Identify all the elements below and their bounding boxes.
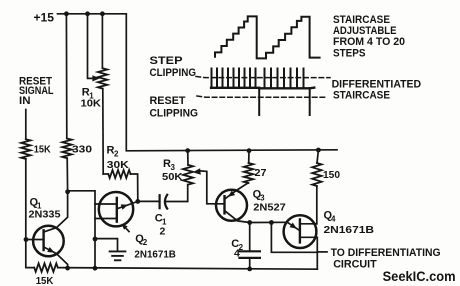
svg-text:50K: 50K [162,171,183,183]
R3 wiper with arrow, to Q3 base [200,171,224,204]
resistor 15K (bottom, horizontal) [34,263,58,271]
wire: reset signal in lead [25,110,27,140]
Q3 emitter lead (to 27 ohm) with arrow [225,183,248,199]
wire: node to C1 [138,200,159,202]
junction dot 6 [316,148,321,153]
svg-text:2: 2 [160,225,166,237]
junction dot 14 [93,266,98,271]
svg-text:15K: 15K [36,275,54,286]
transistor Q4 2N1671B circle [284,215,317,248]
junction dot 3 [100,11,105,16]
ground branch wire from Q2 feed line [95,239,118,251]
junction dot 15 [247,267,252,272]
Q3 base bar [223,196,225,213]
wire: 27 ohm top lead [248,151,250,163]
svg-text:4: 4 [234,248,240,260]
wire: collector node horizontal [250,221,287,223]
svg-text:FROM 4 TO 20: FROM 4 TO 20 [333,36,405,48]
junction dot 11 [247,220,252,225]
junction dot 8 [135,199,140,204]
junction dot 5 [247,148,252,153]
wire: 330 branch from +15 rail [65,14,67,139]
svg-text:30K: 30K [107,159,129,171]
Q4 upper-right lead (B2) [301,223,317,225]
svg-text:15K: 15K [34,144,51,156]
svg-text:2N335: 2N335 [29,209,61,221]
potentiometer R3 50K [183,165,193,185]
wire: tap to differentiating circuit [317,251,327,253]
svg-text:STEP: STEP [150,55,183,67]
reset clipping dashed line [197,96,327,97]
Q2 base bar [116,198,118,222]
Q1 collector lead [44,192,67,232]
Q2 label pointer arrow [124,226,129,232]
svg-text:27: 27 [255,167,267,179]
Q1 emitter lead with arrow [44,247,67,268]
Q2 upper-left lead [95,203,116,205]
differentiated staircase step spikes group 1 [212,69,256,88]
svg-text:330: 330 [72,143,92,155]
junction dot 9 [24,237,29,242]
wire: C1 to R3 bottom [166,185,188,202]
wire: C2 top lead [249,223,251,252]
junction dot 13 [65,266,70,271]
svg-text:2N527: 2N527 [253,202,286,214]
junction dot 4 [185,148,190,153]
svg-text:STAIRCASE: STAIRCASE [333,14,390,26]
svg-text:CIRCUIT: CIRCUIT [333,259,377,271]
Q4 base bar [299,219,301,242]
wire: 150 bottom to Q4 B2 [316,186,318,224]
wire: R1 top lead [101,14,103,68]
transistor Q2 2N1671B circle [99,192,133,226]
wire: C2 bottom lead [249,258,251,269]
svg-text:CLIPPING: CLIPPING [150,108,199,120]
Q1 base bar [42,230,44,250]
svg-text:IN: IN [19,95,31,107]
resistor 27 [244,163,253,183]
wire: bottom ground rail [58,268,318,270]
wire: R2 left lead [103,173,108,175]
transistor Q3 2N527 circle [216,190,247,221]
capacitor C2 plates [240,250,260,252]
svg-text:2: 2 [143,238,148,247]
svg-text:4: 4 [331,214,336,223]
svg-text:+15: +15 [34,10,55,24]
wire: node to Q2 left feed line [68,191,95,268]
Q4 emitter diagonal with arrow [287,222,300,230]
wire: Q1 base from reset node [26,239,43,241]
junction dot 7 [65,189,70,194]
R1 wiper arrowhead [92,75,99,81]
junction dot 2 [85,11,90,16]
resistor 330 [62,139,71,159]
wire: R3 top lead [187,151,189,165]
svg-text:150: 150 [323,169,340,181]
Q2 emitter lead to node, arrow [118,201,138,208]
wire: R1 bottom down to R2 [102,89,104,174]
wire: reset line down to Q1 base node and bottom corner [26,159,34,268]
Q4 lower-right lead (B1) [301,237,318,269]
resistor 150 [312,163,321,186]
wire: 330 bottom to node [66,158,68,192]
svg-text:STEPS: STEPS [333,48,366,60]
svg-text:CLIPPING: CLIPPING [150,67,197,79]
wire: 150 top lead [317,150,318,163]
junction dot 1 [64,11,69,16]
svg-text:10K: 10K [81,98,102,110]
potentiometer R1 10K [98,68,107,88]
capacitor C1 plates [159,195,161,208]
resistor 15K (upper left, vertical) [21,139,30,159]
wire: R2 right lead down to node [131,174,138,201]
ground [110,251,126,260]
Q3 collector lead to node [225,211,249,222]
junction dot 12 [269,220,274,225]
svg-text:SeekIC.com: SeekIC.com [383,268,456,284]
+15 power rail [58,14,338,151]
svg-text:TO DIFFERENTIATING: TO DIFFERENTIATING [331,247,441,259]
Q2 lower-left lead [95,218,116,220]
svg-text:2N1671B: 2N1671B [134,249,176,261]
svg-text:STAIRCASE: STAIRCASE [333,89,390,101]
transistor Q1 2N335 circle [33,226,64,257]
wire: R1 wiper feed from +15 [88,14,94,79]
staircase waveform [215,16,320,58]
differentiated staircase step spikes group 2 [265,69,304,89]
differentiated staircase baseline [211,86,314,89]
resistor R2 30K [108,170,130,178]
wire: node drop to lower link [271,223,317,253]
junction dot 10 [93,237,98,242]
svg-text:2: 2 [114,149,119,158]
svg-text:RESET: RESET [150,95,186,107]
svg-text:2N1671B: 2N1671B [324,224,375,236]
step clipping dashed line [196,77,330,78]
